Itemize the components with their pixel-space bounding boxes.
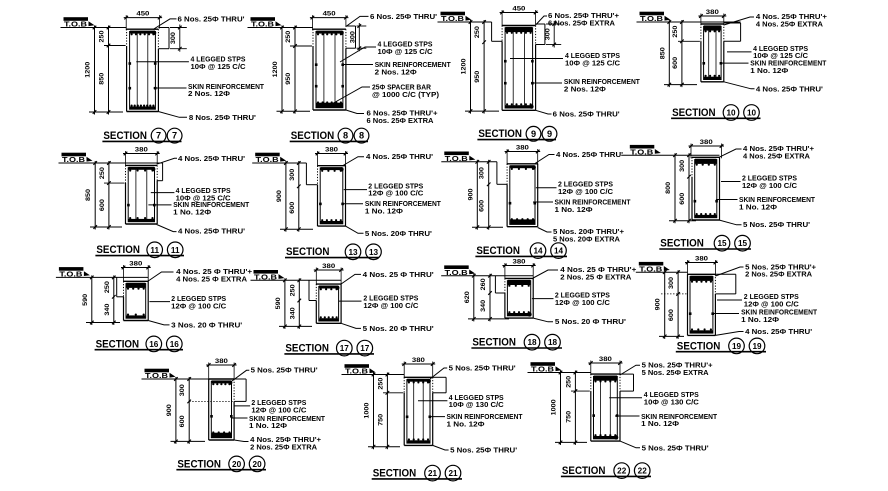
slab drop right S22: [620, 373, 634, 375]
left dimension lines S11: [94, 161, 96, 230]
T.O.B reference line S19: [636, 271, 688, 273]
skin reinforcement bars S20: [210, 415, 213, 418]
left dimension lines S14: [476, 160, 478, 230]
stirrup S7: [130, 32, 156, 110]
slab drop right S10: [724, 22, 741, 24]
left dimension lines S10: [668, 20, 670, 87]
beam outline S19: [688, 273, 716, 275]
top rebar: 5+2 Nos. 25 dia S19: [690, 276, 712, 281]
svg-text:1 No. 12Ф: 1 No. 12Ф: [249, 421, 287, 430]
label: 5 Nos. 20Ф THRU'+ / 5 Nos. 20Ф EXTRA S14: [538, 228, 552, 233]
svg-text:6 Nos. 25Ф EXTRA: 6 Nos. 25Ф EXTRA: [548, 18, 615, 27]
svg-text:380: 380: [513, 259, 527, 266]
T.O.B reference line S18: [441, 275, 533, 277]
svg-text:800: 800: [665, 181, 672, 194]
label: 5 Nos. 25Ф THRU' S20: [232, 370, 249, 381]
svg-text:2 Nos. 25 Ф EXTRA: 2 Nos. 25 Ф EXTRA: [560, 272, 631, 281]
svg-text:4 Nos. 25Ф THRU': 4 Nos. 25Ф THRU': [756, 84, 823, 93]
svg-text:900: 900: [467, 188, 474, 201]
T.O.B reference line S21: [342, 374, 405, 376]
left dimension lines S18: [473, 274, 475, 322]
bottom rebar: 4 Nos. 25 dia THRU S10: [704, 77, 721, 80]
top width dimension 380 S17: [314, 269, 344, 271]
bottom rebar: 5 Nos. 20 dia THRU S13: [321, 221, 343, 224]
label: 6 Nos. 25Ф THRU'+ / 6 Nos. 25Ф EXTRA S9: [536, 16, 547, 25]
top width dimension 450 S8: [310, 17, 349, 19]
svg-text:21: 21: [448, 469, 458, 478]
svg-text:SECTION: SECTION: [478, 128, 522, 140]
section title SECTION 9-9: [477, 126, 556, 141]
svg-text:450: 450: [512, 6, 526, 13]
beam outline S17: [316, 283, 341, 285]
svg-text:4 Nos. 25Ф THRU': 4 Nos. 25Ф THRU': [178, 227, 245, 236]
top rebar: 4+4 Nos. 25 dia S16: [126, 283, 145, 288]
T.O.B marker for section 10: [640, 12, 671, 23]
svg-text:3 Nos. 20 Ф THRU': 3 Nos. 20 Ф THRU': [171, 320, 242, 329]
svg-text:250: 250: [565, 375, 572, 388]
stirrup S15: [695, 160, 717, 218]
label: 4 Nos. 25Ф THRU' S10: [724, 82, 755, 89]
T.O.B reference line S20: [142, 378, 209, 380]
svg-text:600: 600: [179, 415, 186, 428]
bottom rebar: 4 Nos. 25 dia THRU S11: [129, 219, 155, 222]
section title SECTION 8-8: [290, 128, 369, 143]
label: 5 Nos. 25Ф THRU'+ / 2 Nos. 25Ф EXTRA S19: [715, 267, 743, 276]
T.O.B marker for section 8: [251, 17, 282, 28]
svg-text:600: 600: [99, 199, 106, 212]
T.O.B marker for section 11: [62, 153, 93, 164]
stirrup S17: [319, 286, 339, 321]
svg-text:14: 14: [554, 247, 564, 256]
stirrup S10: [704, 26, 722, 79]
svg-text:SECTION: SECTION: [291, 130, 335, 142]
inner stirrup legs S10: [708, 27, 710, 78]
top rebar: 5 Nos. 25 dia THRU S21: [407, 379, 430, 382]
label: 4 Nos. 25 Ф THRU'+ / 4 Nos. 25 Ф EXTRA S16: [148, 272, 173, 281]
top rebar: 4 Nos. 25 dia THRU S11: [129, 167, 155, 170]
left dimension lines S21: [373, 373, 375, 450]
label: 5 Nos. 25Ф THRU' S22: [620, 441, 640, 448]
top width dimension 380 S21: [402, 363, 436, 365]
label: 2 LEGGED STPS / 12Ф @ 100 C/C S19: [717, 299, 742, 301]
svg-text:600: 600: [679, 192, 686, 205]
section title SECTION 16-16: [95, 336, 183, 352]
label: SKIN REINFORCEMENT / 2 Nos. 12Ф S9: [531, 82, 562, 84]
svg-text:SECTION: SECTION: [96, 338, 140, 350]
svg-text:20: 20: [253, 460, 263, 469]
svg-text:5 Nos. 20 Ф THRU': 5 Nos. 20 Ф THRU': [555, 317, 626, 326]
beam outline S15: [692, 156, 720, 158]
bottom rebar: 5 Nos. 20 dia THRU S17: [319, 318, 338, 321]
slab step left S14: [496, 162, 498, 185]
svg-text:12Ф @ 100 C/C: 12Ф @ 100 C/C: [555, 298, 610, 307]
top width dimension 380 S10: [698, 15, 726, 17]
svg-text:17: 17: [360, 344, 370, 353]
svg-text:2 Nos. 12Ф: 2 Nos. 12Ф: [564, 84, 606, 93]
svg-text:4 Nos. 25Ф EXTRA: 4 Nos. 25Ф EXTRA: [756, 20, 823, 29]
stirrup S11: [128, 168, 154, 222]
label: 4 Nos. 25Ф THRU'+ / 2 Nos. 25Ф EXTRA S20: [234, 440, 248, 442]
label: SKIN REINFORCEMENT / 2 Nos. 12Ф S8: [343, 64, 373, 66]
svg-text:1 No. 12Ф: 1 No. 12Ф: [641, 419, 679, 428]
T.O.B marker for section 14: [444, 152, 475, 163]
svg-text:17: 17: [340, 344, 350, 353]
svg-text:2 Nos. 25Ф EXTRA: 2 Nos. 25Ф EXTRA: [745, 270, 812, 279]
svg-text:300: 300: [679, 159, 686, 172]
svg-text:SECTION: SECTION: [177, 458, 221, 470]
slab step left S22: [571, 390, 590, 392]
svg-text:5 Nos. 25Ф THRU': 5 Nos. 25Ф THRU': [450, 445, 517, 454]
skin reinforcement bars S14: [509, 202, 512, 205]
svg-text:5 Nos. 20 Ф THRU': 5 Nos. 20 Ф THRU': [363, 324, 434, 333]
bottom rebar: 8 Nos. 25 dia THRU S7: [130, 106, 155, 109]
left dimension lines S20: [175, 377, 177, 444]
T.O.B marker for section 9: [441, 12, 472, 23]
svg-text:260: 260: [480, 278, 487, 291]
svg-text:850: 850: [99, 72, 106, 85]
svg-text:15: 15: [717, 239, 727, 248]
top width dimension 450 S7: [124, 17, 162, 19]
slab drop right S7: [158, 27, 169, 29]
T.O.B reference line S9: [438, 21, 492, 23]
stirrup S9: [505, 28, 532, 108]
svg-text:SECTION: SECTION: [373, 468, 417, 480]
section title SECTION 18-18: [471, 334, 562, 350]
svg-text:2 Nos. 12Ф: 2 Nos. 12Ф: [188, 89, 230, 98]
svg-text:300: 300: [170, 32, 177, 45]
beam outline S14: [507, 163, 538, 165]
label: SKIN REINFORCEMENT / 1 No. 12Ф S11: [148, 204, 171, 206]
slab drop right S19: [715, 273, 735, 275]
svg-text:380: 380: [599, 356, 613, 363]
section title SECTION 22-22: [561, 463, 651, 479]
label: 4 Nos. 25 Ф THRU'+ / 2 Nos. 25 Ф EXTRA S18: [533, 270, 558, 278]
svg-text:7: 7: [156, 131, 161, 141]
svg-text:8 Nos. 25Ф THRU': 8 Nos. 25Ф THRU': [189, 113, 256, 122]
label: 4 LEGGED STPS / 10Ф @ 130 C/C S21: [418, 400, 447, 402]
svg-text:SECTION: SECTION: [672, 107, 716, 119]
svg-text:2 Nos. 12Ф: 2 Nos. 12Ф: [375, 67, 417, 76]
stirrup S20: [211, 381, 231, 437]
top rebar: 5 Nos. 25 dia THRU S20: [212, 380, 232, 383]
label: 4 LEGGED STPS / 10Ф @ 130 C/C S22: [609, 397, 642, 399]
stirrup S16: [126, 284, 146, 319]
slab drop right S11: [157, 162, 162, 164]
svg-text:21: 21: [428, 469, 438, 478]
svg-text:590: 590: [275, 297, 282, 310]
svg-text:2 Nos. 25Ф EXTRA: 2 Nos. 25Ф EXTRA: [250, 442, 317, 451]
top rebar: 4 Nos. 25 dia THRU S14: [510, 165, 535, 168]
bottom rebar: 4+2 Nos. 25 dia S20: [212, 433, 232, 438]
skin reinforcement bars S15: [694, 200, 697, 203]
label: 6 Nos. 25Ф THRU' S7: [153, 19, 177, 30]
svg-text:8: 8: [359, 131, 364, 141]
left dimension lines S22: [560, 371, 562, 445]
bottom rebar: 5 Nos. 25 dia THRU S21: [407, 440, 430, 443]
svg-text:600: 600: [672, 56, 679, 69]
T.O.B marker for section 7: [64, 17, 95, 28]
svg-text:5 Nos. 25Ф EXTRA: 5 Nos. 25Ф EXTRA: [642, 368, 709, 377]
slab step left S16: [116, 277, 118, 296]
svg-text:10Ф @ 130 C/C: 10Ф @ 130 C/C: [449, 400, 504, 409]
label: 3 Nos. 20 Ф THRU' S16: [148, 321, 169, 325]
svg-text:6 Nos. 25Ф THRU': 6 Nos. 25Ф THRU': [370, 12, 437, 21]
svg-text:600: 600: [289, 201, 296, 214]
label: SKIN REINFORCEMENT / 1 No. 12Ф S14: [533, 201, 553, 203]
T.O.B reference line S8: [248, 27, 314, 29]
beam outline S9: [502, 25, 535, 27]
T.O.B marker for section 22: [531, 362, 562, 373]
svg-text:4 Nos. 25Ф THRU': 4 Nos. 25Ф THRU': [745, 327, 812, 336]
label: 5 Nos. 20 Ф THRU' S17: [341, 323, 361, 328]
skin reinforcement bars S11: [127, 204, 130, 207]
svg-text:300: 300: [668, 276, 675, 289]
top width dimension 380 S22: [588, 362, 622, 364]
label: SKIN REINFORCEMENT / 1 No. 12Ф S19: [712, 313, 739, 315]
top width dimension 380 S13: [315, 153, 348, 155]
T.O.B marker for section 13: [255, 153, 286, 164]
svg-text:250: 250: [99, 30, 106, 43]
inner stirrup legs S7: [136, 33, 138, 109]
label: 6 Nos. 25Ф THRU' S8: [346, 16, 369, 26]
top rebar: 6 Nos. 25 dia THRU S8: [316, 31, 342, 34]
svg-text:12Ф @ 100 C/C: 12Ф @ 100 C/C: [171, 302, 226, 311]
left dimension lines S17: [284, 278, 286, 329]
svg-text:6 Nos. 25Ф EXTRA: 6 Nos. 25Ф EXTRA: [367, 116, 434, 125]
section title SECTION 11-11: [95, 242, 184, 258]
svg-text:16: 16: [149, 340, 159, 349]
svg-text:1000: 1000: [551, 399, 558, 416]
svg-text:10Ф @ 125 C/C: 10Ф @ 125 C/C: [378, 47, 433, 56]
label: 5 Nos. 25Ф THRU' S21: [430, 368, 447, 379]
svg-text:SECTION: SECTION: [285, 343, 329, 355]
svg-text:5 Nos. 20Ф THRU': 5 Nos. 20Ф THRU': [365, 229, 432, 238]
label: 4 Nos. 25 Ф THRU' S17: [341, 274, 361, 284]
svg-text:10Ф @ 125 C/C: 10Ф @ 125 C/C: [191, 62, 246, 71]
T.O.B reference line S11: [59, 162, 163, 164]
svg-text:4 Nos. 25Ф THRU': 4 Nos. 25Ф THRU': [366, 152, 433, 161]
label: SKIN REINFORCEMENT / 1 No. 12Ф S13: [342, 203, 363, 205]
slab step left S7: [104, 45, 126, 47]
svg-text:1 No. 12Ф: 1 No. 12Ф: [365, 207, 403, 216]
skin reinforcement bars S22: [592, 414, 595, 417]
label: 4 Nos. 25Ф THRU' S19: [715, 332, 743, 336]
svg-text:4 Nos. 25 Ф THRU': 4 Nos. 25 Ф THRU': [363, 270, 434, 279]
section title SECTION 7-7: [102, 128, 182, 143]
slab step left S13: [305, 163, 307, 185]
svg-text:300: 300: [179, 384, 186, 397]
label: 2 LEGGED STPS / 12Ф @ 100 C/C S14: [536, 187, 557, 189]
svg-text:300: 300: [289, 168, 296, 181]
svg-text:900: 900: [166, 404, 173, 417]
svg-text:18: 18: [527, 338, 537, 347]
label: 4 LEGGED STPS / 10Ф @ 125 C/C S9: [510, 58, 563, 60]
svg-text:11: 11: [150, 246, 159, 255]
label: 4 Nos. 25Ф THRU' S11: [157, 158, 177, 164]
stirrup S22: [594, 376, 618, 438]
bottom rebar: 5 Nos. 20 dia THRU S18: [508, 313, 531, 316]
svg-text:10Ф @ 130 C/C: 10Ф @ 130 C/C: [644, 398, 699, 407]
section title SECTION 19-19: [676, 338, 766, 354]
svg-text:850: 850: [659, 47, 666, 60]
beam outline S8: [313, 28, 346, 30]
svg-text:590: 590: [82, 293, 89, 306]
label: 4 Nos. 25Ф THRU' S14: [535, 155, 555, 164]
svg-text:950: 950: [474, 70, 481, 83]
svg-text:16: 16: [170, 340, 180, 349]
svg-text:4 Nos. 25Ф EXTRA: 4 Nos. 25Ф EXTRA: [743, 151, 810, 160]
svg-text:4 Nos. 25Ф THRU': 4 Nos. 25Ф THRU': [556, 150, 623, 159]
skin reinforcement bars S10: [703, 62, 706, 65]
svg-text:10: 10: [726, 109, 736, 118]
svg-text:5 Nos. 25Ф THRU': 5 Nos. 25Ф THRU': [743, 220, 810, 229]
svg-text:10Ф @ 125 C/C: 10Ф @ 125 C/C: [565, 58, 620, 67]
beam outline S18: [505, 277, 533, 279]
svg-text:850: 850: [85, 188, 92, 201]
svg-text:SECTION: SECTION: [660, 238, 704, 250]
label: SKIN REINFORCEMENT / 1 No. 12Ф S22: [615, 415, 640, 417]
svg-text:250: 250: [289, 284, 296, 297]
label: SKIN REINFORCEMENT / 2 Nos. 12Ф S7: [154, 87, 187, 89]
svg-text:22: 22: [638, 467, 648, 476]
stirrup S21: [407, 380, 430, 444]
svg-text:380: 380: [325, 147, 339, 154]
T.O.B reference line S7: [61, 27, 127, 29]
left dimension lines S16: [91, 275, 93, 325]
T.O.B marker for section 20: [145, 369, 176, 380]
label: 2 LEGGED STPS / 12Ф @ 100 C/C S17: [339, 300, 362, 302]
svg-text:300: 300: [479, 167, 486, 180]
top rebar: 4+2 Nos. 25 dia S18: [508, 280, 531, 285]
svg-text:900: 900: [276, 190, 283, 203]
svg-text:340: 340: [289, 307, 296, 320]
label: 2 LEGGED STPS / 12Ф @ 100 C/C S16: [149, 301, 170, 303]
label: 6 Nos. 25Ф THRU'+ / 6 Nos. 25Ф EXTRA S8: [346, 110, 364, 114]
label: 2 LEGGED STPS / 12Ф @ 100 C/C S13: [344, 189, 367, 191]
svg-text:1200: 1200: [272, 61, 279, 78]
inner stirrup legs S8: [323, 33, 325, 107]
label: 25Ф SPACER BAR / @ 1000 C/C (TYP) S8: [330, 87, 370, 105]
label: 5 Nos. 20Ф THRU' S13: [346, 226, 364, 233]
svg-text:13: 13: [369, 248, 379, 257]
inner stirrup legs S9: [512, 29, 514, 107]
label: SKIN REINFORCEMENT / 1 No. 12Ф S15: [716, 199, 738, 201]
stirrup S13: [320, 168, 343, 224]
left dimension lines S9: [470, 20, 472, 114]
svg-text:380: 380: [412, 357, 426, 364]
beam outline S20: [209, 378, 234, 380]
top width dimension 450 S9: [500, 12, 538, 14]
svg-text:1 No. 12Ф: 1 No. 12Ф: [741, 315, 779, 324]
svg-text:1 No. 12Ф: 1 No. 12Ф: [447, 420, 485, 429]
section title SECTION 15-15: [659, 235, 751, 251]
bottom rebar: 3 Nos. 20 dia THRU S16: [126, 315, 145, 318]
bottom rebar: 6 Nos. 25 dia THRU S9: [505, 105, 532, 108]
svg-text:380: 380: [516, 145, 530, 152]
skin reinforcement bars S7: [129, 62, 132, 65]
slab step left S18: [494, 276, 496, 293]
section title SECTION 14-14: [475, 243, 567, 259]
svg-text:600: 600: [479, 199, 486, 212]
T.O.B marker for section 17: [254, 270, 285, 281]
svg-text:18: 18: [548, 338, 558, 347]
beam outline S10: [701, 23, 724, 25]
svg-text:340: 340: [104, 303, 111, 316]
svg-text:8: 8: [343, 131, 348, 141]
top width dimension 380 S20: [206, 364, 236, 366]
T.O.B marker for section 21: [345, 364, 376, 375]
left dimension lines S8: [281, 26, 283, 114]
label: 5 Nos. 25Ф THRU'+ / 5 Nos. 25Ф EXTRA S22: [620, 365, 640, 375]
section title SECTION 13-13: [285, 244, 381, 260]
svg-text:1 No. 12Ф: 1 No. 12Ф: [555, 205, 593, 214]
svg-text:20: 20: [232, 460, 242, 469]
label: SKIN REINFORCEMENT / 1 No. 12Ф S20: [231, 417, 247, 419]
bottom rebar: 5 Nos. 25 dia THRU S22: [594, 436, 617, 439]
svg-text:300: 300: [544, 28, 551, 41]
T.O.B reference line S15: [621, 154, 719, 156]
label: 4 LEGGED STPS / 10Ф @ 125 C/C S8: [340, 47, 376, 62]
svg-text:SECTION: SECTION: [472, 337, 516, 349]
beam outline S11: [126, 164, 158, 166]
section title SECTION 10-10: [671, 105, 760, 121]
label: SKIN REINFORCEMENT / 1 No. 12Ф S21: [429, 416, 445, 418]
svg-text:12Ф @ 100 C/C: 12Ф @ 100 C/C: [558, 187, 613, 196]
T.O.B reference line S16: [56, 276, 148, 278]
slab step left S11: [104, 182, 125, 184]
label: 2 LEGGED STPS / 12Ф @ 100 C/C S20: [234, 405, 250, 407]
svg-text:14: 14: [533, 247, 543, 256]
bottom rebar: 6+6 Nos. 25 dia S8: [316, 103, 342, 108]
svg-text:380: 380: [706, 9, 720, 16]
inner stirrup legs S11: [135, 169, 137, 221]
label: 4 LEGGED STPS / 10Ф @ 125 C/C S10: [727, 51, 752, 53]
svg-text:950: 950: [285, 72, 292, 85]
T.O.B marker for section 15: [630, 145, 661, 156]
svg-text:SECTION: SECTION: [96, 244, 140, 256]
T.O.B reference line S22: [528, 372, 591, 374]
beam outline S16: [124, 280, 149, 282]
label: 5 Nos. 25Ф THRU' S21: [433, 445, 449, 450]
slab drop right S20: [234, 378, 246, 380]
svg-text:300: 300: [350, 31, 357, 44]
right 300 dimension S8: [357, 25, 367, 27]
section title SECTION 21-21: [372, 465, 462, 481]
svg-text:5 Nos. 25Ф THRU': 5 Nos. 25Ф THRU': [642, 443, 709, 452]
slab step left S21: [383, 392, 403, 394]
svg-text:1000: 1000: [364, 402, 371, 419]
svg-text:450: 450: [323, 11, 337, 18]
stirrup S19: [690, 277, 713, 334]
beam outline S21: [404, 376, 433, 378]
svg-text:380: 380: [700, 139, 714, 146]
svg-text:750: 750: [565, 410, 572, 423]
beam outline S22: [591, 373, 620, 375]
svg-text:380: 380: [322, 263, 336, 270]
svg-text:900: 900: [655, 298, 662, 311]
slab drop right S8: [346, 25, 356, 27]
slab step left S8: [290, 45, 312, 47]
svg-text:5 Nos. 20Ф EXTRA: 5 Nos. 20Ф EXTRA: [553, 234, 620, 243]
left dimension lines S13: [285, 161, 287, 232]
svg-text:12Ф @ 100 C/C: 12Ф @ 100 C/C: [363, 301, 418, 310]
T.O.B marker for section 19: [639, 262, 670, 273]
svg-text:250: 250: [104, 281, 111, 294]
left dimension lines S19: [664, 270, 666, 339]
svg-text:250: 250: [377, 377, 384, 390]
svg-text:@ 1000 C/C (TYP): @ 1000 C/C (TYP): [372, 90, 440, 99]
T.O.B reference line S13: [252, 162, 306, 164]
